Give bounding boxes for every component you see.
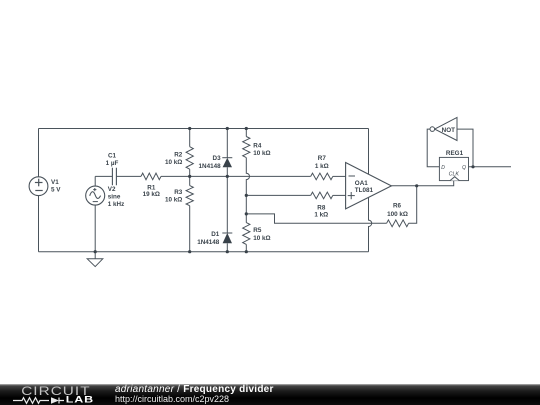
svg-text:REG1: REG1	[446, 150, 464, 157]
svg-text:sine: sine	[108, 194, 121, 201]
svg-text:D1: D1	[211, 231, 220, 238]
svg-text:10 kΩ: 10 kΩ	[253, 235, 270, 242]
svg-text:R5: R5	[253, 227, 262, 234]
svg-text:1 kΩ: 1 kΩ	[315, 163, 329, 170]
svg-text:R8: R8	[317, 204, 326, 211]
svg-text:NOT: NOT	[442, 127, 455, 134]
svg-text:R6: R6	[393, 203, 402, 210]
svg-text:5 V: 5 V	[51, 186, 61, 193]
svg-text:D: D	[441, 165, 445, 171]
svg-text:R2: R2	[174, 151, 183, 158]
svg-text:1 kHz: 1 kHz	[108, 201, 124, 208]
svg-text:LAB: LAB	[66, 395, 94, 405]
svg-text:1 µF: 1 µF	[106, 160, 119, 167]
svg-text:Q: Q	[462, 165, 466, 171]
svg-text:V2: V2	[108, 186, 116, 193]
svg-text:C1: C1	[108, 153, 117, 160]
svg-text:OA1: OA1	[355, 180, 368, 187]
svg-text:10 kΩ: 10 kΩ	[253, 150, 270, 157]
svg-text:10 kΩ: 10 kΩ	[165, 197, 182, 204]
svg-text:D3: D3	[213, 155, 222, 162]
svg-text:1N4148: 1N4148	[197, 239, 220, 246]
svg-text:1N4148: 1N4148	[199, 163, 222, 170]
svg-text:V1: V1	[51, 179, 59, 186]
svg-text:TL081: TL081	[355, 187, 374, 194]
svg-text:100 kΩ: 100 kΩ	[387, 211, 408, 218]
svg-text:19 kΩ: 19 kΩ	[143, 191, 160, 198]
svg-text:R4: R4	[253, 142, 262, 149]
svg-text:10 kΩ: 10 kΩ	[165, 159, 182, 166]
svg-text:CLK: CLK	[449, 171, 460, 177]
svg-text:R3: R3	[174, 189, 183, 196]
svg-text:R7: R7	[318, 155, 327, 162]
svg-text:1 kΩ: 1 kΩ	[314, 212, 328, 219]
